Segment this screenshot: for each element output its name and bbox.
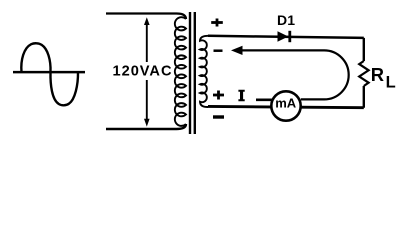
svg-text:D1: D1 xyxy=(277,12,295,28)
wire: right branch with RL, corners xyxy=(363,38,365,108)
wire: primary top lead xyxy=(106,14,186,20)
wire: secondary top lead to diode and RL xyxy=(208,36,364,38)
svg-text:L: L xyxy=(386,74,396,92)
polarity label + (secondary lower) xyxy=(213,91,224,100)
svg-text:120VAC: 120VAC xyxy=(113,64,172,80)
AC source sine wave symbol xyxy=(13,43,85,105)
wire: primary bottom lead xyxy=(106,124,186,129)
current flow arrow (annotation path) xyxy=(240,50,349,99)
svg-text:mA: mA xyxy=(275,96,297,111)
label I (current) xyxy=(238,90,244,101)
svg-text:R: R xyxy=(371,64,384,85)
transformer core xyxy=(190,12,195,134)
dimension arrow for 120VAC xyxy=(144,17,150,126)
wire: bottom return to secondary xyxy=(208,106,364,107)
current flow arrowhead xyxy=(231,46,243,55)
polarity label - (secondary upper) xyxy=(214,49,223,52)
diode D1 xyxy=(278,31,290,42)
resistor RL xyxy=(359,61,368,86)
meter mA (circle) xyxy=(271,91,300,120)
polarity label + (secondary top) xyxy=(211,19,223,27)
transformer T1 primary winding xyxy=(175,17,186,126)
polarity label - (secondary bottom) xyxy=(213,115,224,118)
transformer secondary winding xyxy=(200,36,208,107)
